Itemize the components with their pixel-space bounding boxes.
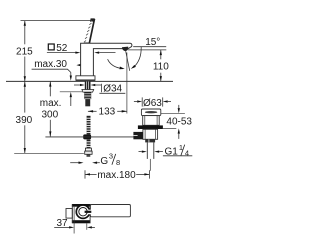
small arrowhead at body left edge <box>76 64 81 67</box>
37 extension line left <box>73 207 75 234</box>
hose below junction <box>87 140 91 149</box>
bottom view: lever bar <box>90 205 130 217</box>
waste valve body <box>143 129 158 139</box>
lever bottom edge <box>84 42 89 44</box>
faucet body outline <box>81 43 132 76</box>
water stream tilted line <box>126 51 130 71</box>
37 right arrow <box>87 226 92 228</box>
svg-text:110: 110 <box>153 62 169 73</box>
Ø34 arrows at shank <box>74 84 80 86</box>
G1 1/4 arrows <box>139 151 142 153</box>
svg-text:215: 215 <box>16 46 33 57</box>
extension centerline of outlet (for 133) <box>126 53 128 114</box>
bottom view: square body sides <box>71 205 73 223</box>
svg-text:300: 300 <box>41 110 58 121</box>
swing arc left <box>108 59 123 68</box>
bottom view: square body bottom band <box>72 220 91 223</box>
bottom view: G bar <box>85 211 92 213</box>
37 extension line right <box>86 223 88 229</box>
escutcheon base dark strip <box>76 80 96 82</box>
svg-text:G: G <box>100 156 108 167</box>
lever left edge hatch ticks <box>84 20 92 42</box>
dimension line 215/390 vertical at x=24.8 <box>24 21 26 154</box>
leader max.30 underline + elbow + down arrow <box>32 69 71 76</box>
svg-text:390: 390 <box>16 115 33 126</box>
svg-text:max.180: max.180 <box>97 170 136 181</box>
label Ø34 tick <box>101 84 103 92</box>
waste drain hole ellipse <box>145 111 157 113</box>
waste collar <box>145 139 155 142</box>
max.30 lower arrow pointing up at washer underside <box>70 97 72 106</box>
bottom view: square body top band <box>72 204 91 207</box>
counter reference plane line <box>6 80 173 82</box>
lever thick right edge <box>89 19 94 43</box>
svg-text:40-53: 40-53 <box>166 116 192 127</box>
threaded shank through counter <box>85 81 91 89</box>
bottom view: cartridge circle inner <box>79 208 87 216</box>
waste valve body inner lines <box>144 130 146 140</box>
dimension 40-53 <box>161 112 185 114</box>
leader line 52 with arrow to body <box>47 52 76 54</box>
mounting nut (hatched) <box>84 92 91 99</box>
waste flange body inner walls <box>144 116 146 125</box>
waste seal washer (black bar) <box>138 125 163 129</box>
extension line at lever top (215) <box>21 20 93 22</box>
dimension 133 <box>88 110 97 112</box>
svg-text:133: 133 <box>99 107 116 118</box>
waste flange body <box>143 116 160 126</box>
arrowheads 215 <box>24 21 26 26</box>
waste centerline <box>149 159 151 171</box>
svg-text:Ø63: Ø63 <box>143 98 162 109</box>
110 reference line at outlet level <box>128 49 167 51</box>
G3/8 arrows <box>70 162 78 164</box>
svg-text:max.30: max.30 <box>34 59 67 70</box>
svg-text:max.: max. <box>40 98 62 109</box>
hose junction fitting <box>83 134 91 139</box>
waste tailpipe <box>146 142 148 159</box>
bottom view: G gap white <box>88 210 91 215</box>
dimension max.180 <box>84 170 86 178</box>
swing arc right (from 15 label down-left) <box>133 47 141 68</box>
drain connection line to waste (and max.300 extension) <box>45 136 133 138</box>
G1 1/4 underline <box>163 155 192 157</box>
supply hose braided column <box>87 116 91 135</box>
waste flange rim <box>141 109 160 116</box>
extension line at hose end (390) <box>14 152 84 154</box>
shank stub <box>85 99 90 106</box>
dimension Ø63 <box>141 97 143 106</box>
bottom view: left tab <box>66 209 72 219</box>
37 underline leader + arrow <box>54 226 69 228</box>
svg-text:8: 8 <box>116 158 120 167</box>
Ø34 underline <box>99 92 125 94</box>
dimension line max.300 at x=50.3 <box>49 81 51 136</box>
15 underline <box>133 46 166 48</box>
hose end fitting <box>85 148 91 151</box>
label square-52 symbol <box>48 44 54 50</box>
mousseur outlet under spout <box>122 47 128 52</box>
52 right-side arrow at body right edge <box>94 51 99 53</box>
lever top cap <box>90 18 95 21</box>
extension line washer underside <box>60 91 82 93</box>
waste side inlet <box>133 132 143 139</box>
bottom view: cartridge circle outer <box>76 205 89 218</box>
arrowheads 390 <box>24 82 26 87</box>
dimension line 110 <box>160 50 162 59</box>
escutcheon <box>76 76 95 80</box>
svg-text:3: 3 <box>109 151 113 160</box>
washer <box>82 90 94 93</box>
